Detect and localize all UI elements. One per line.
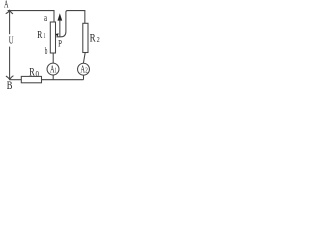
- wire: top wire from A to R1 feed corner: [8, 11, 54, 22]
- svg-text:U: U: [9, 36, 14, 47]
- svg-text:P: P: [58, 40, 62, 50]
- svg-text:R: R: [29, 65, 35, 79]
- slider P: up arrow head: [58, 13, 63, 20]
- voltage arrow down (chevron at bottom of left line): [6, 76, 13, 80]
- svg-text:R: R: [37, 30, 42, 41]
- resistor R0 (horizontal box): [21, 76, 41, 82]
- wire: bottom wire right of R0: [42, 79, 84, 81]
- wire: A1 bottom stub: [52, 75, 54, 80]
- svg-text:1: 1: [55, 65, 57, 74]
- svg-text:b: b: [45, 45, 48, 57]
- wire: A2 bottom stub: [83, 75, 85, 80]
- resistor R1 (vertical box): [50, 22, 55, 53]
- svg-text:0: 0: [36, 70, 40, 79]
- svg-text:2: 2: [85, 66, 88, 75]
- wire: bottom wire left of R0: [10, 79, 22, 81]
- slider P: arrow stem: [59, 20, 61, 37]
- slider arm wire: tail, U-turn and up to top wire 2: [56, 11, 84, 37]
- voltage arrow up (chevron at top of left line): [6, 10, 13, 14]
- svg-text:A: A: [4, 0, 9, 10]
- ammeter A2 (circle): [78, 63, 90, 75]
- ammeter A1 (circle): [47, 63, 59, 75]
- resistor R2 (vertical box): [83, 23, 88, 52]
- svg-text:2: 2: [97, 35, 100, 44]
- wire: R2 bottom to ammeter A2: [83, 53, 85, 64]
- svg-text:a: a: [44, 13, 47, 24]
- svg-text:R: R: [90, 33, 96, 45]
- wire: left vertical upper segment: [9, 11, 11, 35]
- svg-text:1: 1: [44, 32, 46, 40]
- wire: R1 bottom to ammeter A1: [52, 53, 54, 63]
- wire: left vertical lower segment: [9, 47, 11, 80]
- slider P: wiper arrowhead touching R1: [56, 33, 59, 37]
